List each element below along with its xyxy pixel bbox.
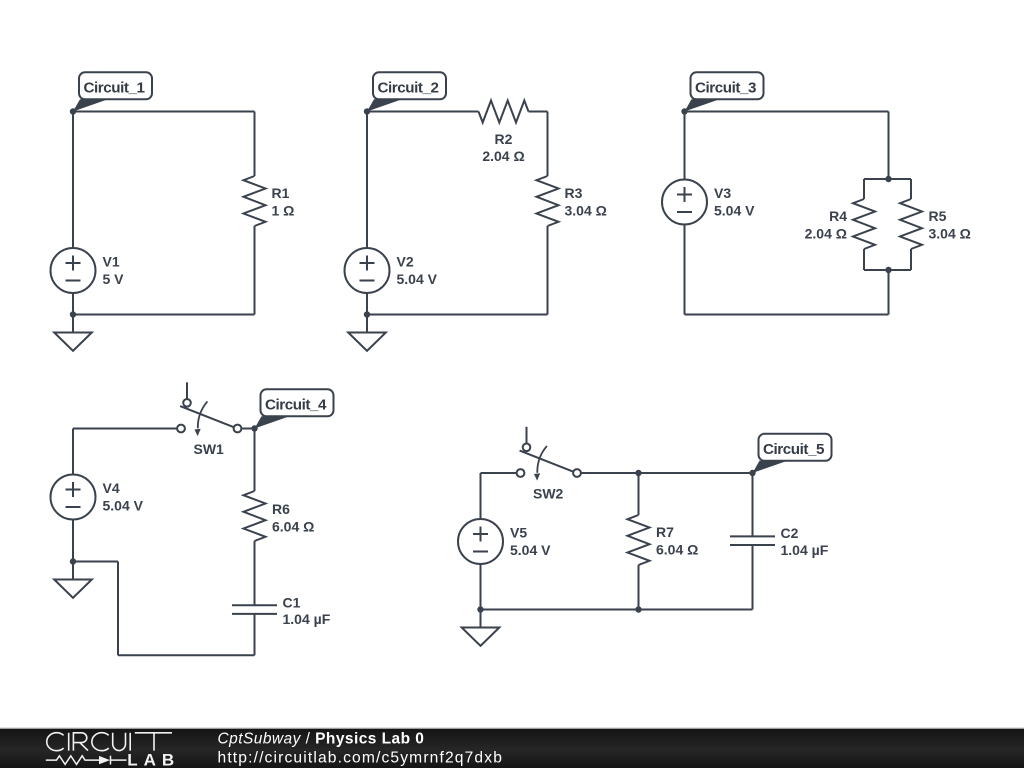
wire bottom C4 [118, 654, 255, 656]
wire right upper C1 [254, 112, 256, 177]
svg-text:5.04 V: 5.04 V [714, 203, 755, 219]
svg-text:3.04 Ω: 3.04 Ω [929, 225, 971, 241]
wire return horizontal C4 [73, 561, 118, 563]
wire left lower C3 [684, 225, 686, 315]
ground C1 [54, 315, 92, 351]
node top-left C3 [681, 108, 687, 114]
wire bottom C1 [73, 314, 255, 316]
wire right lower C3 [888, 270, 890, 315]
switch SW1 [177, 382, 241, 436]
svg-text:R5: R5 [929, 208, 947, 224]
label R2 value [482, 131, 524, 164]
wire left lower C4 [72, 520, 74, 562]
svg-text:5.04 V: 5.04 V [397, 271, 438, 287]
svg-text:R6: R6 [272, 501, 290, 517]
wire top C1 [73, 111, 255, 113]
label C1 value [283, 595, 331, 628]
label R6 value [272, 501, 314, 535]
wire right lower C2 [547, 226, 549, 315]
wire C2 upper C5 [752, 473, 754, 536]
svg-text:C1: C1 [283, 595, 301, 611]
svg-text:Circuit_1: Circuit_1 [84, 79, 146, 96]
resistor R4 [853, 199, 875, 249]
wire below C1 [254, 614, 256, 655]
wire R5 lower lead [910, 249, 912, 270]
ground C4 [54, 562, 92, 598]
node R7 top C5 [635, 470, 641, 476]
wire top C5 [481, 472, 517, 474]
svg-text:V3: V3 [714, 185, 731, 201]
wire left lower C5 [480, 564, 482, 610]
label C2 value [781, 525, 829, 558]
label Circuit_2 [367, 72, 446, 111]
capacitor C2 [730, 536, 775, 545]
svg-text:Circuit_5: Circuit_5 [763, 441, 825, 458]
wire C2 lower C5 [752, 545, 754, 610]
label V1 value [103, 254, 125, 288]
svg-text:1 Ω: 1 Ω [272, 202, 295, 218]
wire right upper C2 [547, 112, 549, 177]
ground C2 [348, 315, 386, 351]
svg-text:1.04 µF: 1.04 µF [283, 611, 331, 627]
node bottom C1 [70, 311, 76, 317]
label R3 value [565, 185, 607, 219]
label V3 value [714, 185, 755, 219]
label Circuit_5 [753, 434, 832, 473]
wire left lower C1 [72, 293, 74, 315]
wire R7 upper C5 [638, 473, 640, 515]
svg-text:http://circuitlab.com/c5ymrnf2: http://circuitlab.com/c5ymrnf2q7dxb [218, 749, 504, 766]
switch SW2 [517, 427, 581, 481]
svg-text:5 V: 5 V [103, 271, 125, 287]
wire left upper C2 [366, 112, 368, 249]
svg-text:Circuit_3: Circuit_3 [695, 79, 756, 96]
resistor R3 [537, 176, 559, 226]
svg-text:SW2: SW2 [533, 486, 564, 502]
resistor R5 [900, 199, 922, 249]
svg-text:R2: R2 [495, 131, 513, 147]
wire parallel top bar C3 [864, 178, 911, 180]
wire left upper C1 [72, 112, 74, 249]
svg-text:Circuit_4: Circuit_4 [265, 396, 327, 413]
svg-text:R1: R1 [272, 185, 290, 201]
label R1 value [272, 185, 295, 219]
node parallel bottom C3 [885, 267, 891, 273]
wire top C4 [73, 428, 177, 430]
wire R7 lower C5 [638, 565, 640, 610]
node parallel top C3 [885, 176, 891, 182]
svg-text:V2: V2 [397, 254, 414, 270]
wire left upper C5 [480, 473, 482, 519]
label Circuit_1 [73, 72, 152, 111]
logo diode triangle [99, 756, 110, 764]
wire right upper C3 [888, 112, 890, 180]
label V2 value [397, 254, 438, 288]
logo resistor-diode line [46, 756, 127, 765]
svg-text:SW1: SW1 [194, 441, 225, 457]
voltage source V1 [51, 248, 96, 293]
svg-text:6.04 Ω: 6.04 Ω [272, 519, 314, 535]
node top-left C1 [70, 108, 76, 114]
logo CIRCUIT wordmark [47, 733, 172, 751]
svg-text:C2: C2 [781, 525, 799, 541]
label V5 value [510, 525, 551, 559]
wire after switch C4 [242, 428, 255, 430]
voltage source V3 [662, 180, 707, 225]
wire bottom C2 [367, 314, 548, 316]
wire return vertical C4 [117, 562, 119, 656]
svg-text:V1: V1 [103, 254, 120, 270]
node ground C5 [477, 606, 483, 612]
wire right upper C4 [254, 429, 256, 492]
label R5 value [929, 208, 971, 242]
wire R6 to C1 [254, 541, 256, 605]
resistor R6 [244, 491, 266, 541]
wire bottom C3 [685, 314, 889, 316]
svg-text:LAB: LAB [127, 751, 180, 768]
svg-text:5.04 V: 5.04 V [103, 498, 144, 514]
svg-text:2.04 Ω: 2.04 Ω [482, 148, 524, 164]
wire after switch C5 [581, 472, 753, 474]
voltage source V2 [345, 248, 390, 293]
svg-text:Circuit_2: Circuit_2 [378, 79, 439, 96]
svg-text:V4: V4 [103, 480, 120, 496]
node top-left C2 [364, 108, 370, 114]
node bottom R7 C5 [635, 606, 641, 612]
svg-text:R3: R3 [565, 185, 583, 201]
label V4 value [103, 480, 144, 514]
svg-text:6.04 Ω: 6.04 Ω [656, 541, 698, 557]
svg-text:5.04 V: 5.04 V [510, 542, 551, 558]
wire R4 lower lead [863, 249, 865, 270]
footer background [0, 729, 1024, 768]
label Circuit_3 [685, 72, 764, 111]
node ground C4 [70, 558, 76, 564]
wire left upper C4 [72, 429, 74, 475]
wire bottom C5 [481, 609, 753, 611]
resistor R2 [479, 101, 529, 123]
wire R4 upper lead [863, 179, 865, 199]
voltage source V5 [458, 519, 503, 564]
node after switch C4 [251, 425, 257, 431]
capacitor C1 [232, 605, 277, 614]
svg-text:1.04 µF: 1.04 µF [781, 542, 829, 558]
wire parallel bottom bar C3 [864, 269, 911, 271]
ground C5 [462, 610, 500, 646]
wire left lower C2 [366, 293, 368, 315]
footer top line [0, 727, 1024, 728]
label R4 value [805, 208, 848, 242]
resistor R1 [244, 176, 266, 226]
label Circuit_4 [255, 389, 334, 428]
wire left upper C3 [684, 112, 686, 180]
node bottom C2 [364, 311, 370, 317]
svg-text:V5: V5 [510, 525, 527, 541]
label R7 value [656, 524, 698, 558]
svg-text:R7: R7 [656, 524, 674, 540]
wire right lower C1 [254, 226, 256, 315]
wire top C3 [685, 111, 889, 113]
svg-text:3.04 Ω: 3.04 Ω [565, 202, 607, 218]
node C2 top C5 [749, 470, 755, 476]
voltage source V4 [51, 475, 96, 520]
svg-text:2.04 Ω: 2.04 Ω [805, 225, 847, 241]
wire top left C2 [367, 111, 479, 113]
svg-text:R4: R4 [829, 208, 847, 224]
resistor R7 [628, 515, 650, 565]
wire top right C2 [529, 111, 548, 113]
svg-text:CptSubway / Physics Lab 0: CptSubway / Physics Lab 0 [218, 731, 425, 748]
wire R5 upper lead [910, 179, 912, 199]
